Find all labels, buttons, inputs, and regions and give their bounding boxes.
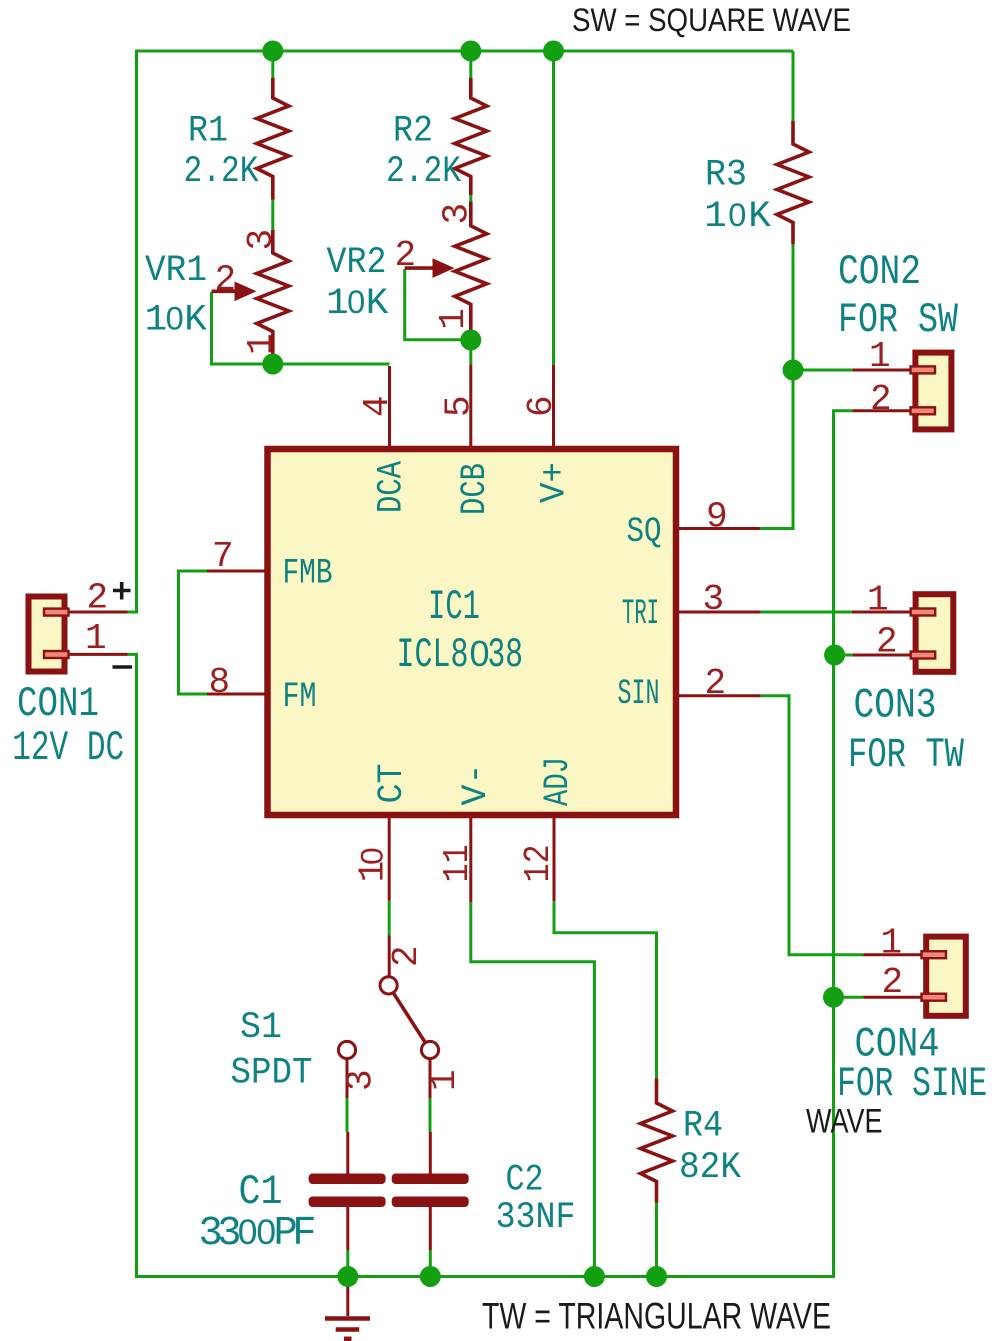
label CON4	[855, 1022, 940, 1069]
label IC1	[428, 584, 480, 631]
svg-text:0: 0	[728, 197, 746, 233]
capacitor C1	[309, 1132, 386, 1250]
wire CON2 pin 1	[793, 369, 852, 372]
pin name CT	[372, 764, 412, 804]
svg-text:3: 3	[341, 1069, 382, 1091]
svg-text:WAVE: WAVE	[806, 1103, 883, 1141]
svg-text:11: 11	[437, 844, 478, 882]
svg-text:8: 8	[209, 662, 231, 703]
pin 7 lead	[207, 570, 268, 573]
wire R3 top stub	[792, 51, 795, 121]
pin number 2 SIN	[705, 663, 727, 704]
CON1 pin number 1	[85, 618, 107, 659]
svg-text:33NF: 33NF	[496, 1197, 576, 1239]
svg-text:SW = SQUARE WAVE: SW = SQUARE WAVE	[572, 2, 851, 38]
svg-text:2: 2	[876, 622, 898, 663]
pin 6 lead	[552, 365, 555, 449]
potentiometer VR2	[405, 202, 487, 341]
svg-text:VR2: VR2	[327, 242, 387, 284]
wire FMB FM loop	[179, 571, 208, 694]
svg-text:2.2K: 2.2K	[386, 151, 461, 193]
svg-text:12: 12	[518, 844, 559, 882]
svg-text:DCB: DCB	[455, 463, 495, 515]
svg-text:1: 1	[869, 336, 891, 377]
node top V+	[543, 41, 564, 62]
label VR2	[327, 242, 387, 284]
label VR2 value	[326, 283, 389, 325]
svg-text:FOR SW: FOR SW	[838, 297, 958, 344]
svg-text:2: 2	[705, 663, 727, 704]
wire CON4 pin 2 stub	[834, 996, 864, 999]
svg-text:3: 3	[241, 229, 282, 251]
label R4	[683, 1106, 723, 1148]
pin number 3 TRI	[703, 579, 725, 620]
pin name V+	[535, 462, 575, 503]
pin name TRI	[622, 594, 659, 634]
wire top and left supply rail	[128, 51, 794, 612]
resistor R1	[257, 78, 289, 200]
label R3	[705, 154, 747, 196]
svg-text:7: 7	[212, 536, 234, 577]
pin number 4	[357, 395, 398, 417]
svg-text:SIN: SIN	[618, 674, 660, 714]
pin name V-	[456, 764, 496, 806]
svg-text:R2: R2	[393, 111, 433, 153]
label CON3 use	[848, 732, 964, 779]
wire VR2 wiper loop	[405, 269, 471, 340]
wire S1 pin1 to C2	[429, 1098, 432, 1132]
svg-text:K: K	[366, 283, 389, 325]
S1 pin number 1	[424, 1069, 465, 1091]
pin name FM	[283, 677, 317, 717]
CON4 pin number 2	[882, 962, 904, 1003]
label CON1	[17, 681, 99, 728]
svg-text:SQ: SQ	[627, 512, 662, 552]
node VR2 pin1	[460, 330, 481, 351]
node CON4 pin2	[823, 987, 844, 1008]
svg-text:1: 1	[241, 333, 282, 355]
wire CT pin 10 to switch	[388, 901, 391, 936]
svg-text:0: 0	[354, 847, 390, 865]
label R1	[188, 111, 228, 153]
svg-text:K: K	[748, 196, 771, 238]
pin number 7	[212, 536, 234, 577]
pin number 6	[521, 395, 562, 417]
CON1 pin number 2	[87, 578, 109, 619]
pin 12 lead	[553, 815, 556, 901]
label C1 value	[199, 1211, 317, 1257]
label CON4 use	[837, 1061, 987, 1108]
wire SIN to CON4 pin 1	[761, 696, 864, 955]
label ICL8038	[397, 632, 524, 679]
CON3 pin number 1	[867, 580, 889, 621]
IC U1 ICL8038 body	[268, 449, 677, 815]
svg-text:CT: CT	[372, 764, 412, 804]
pin 5 lead	[469, 364, 472, 449]
minus mark	[113, 665, 133, 669]
pin 11 lead	[469, 815, 472, 902]
svg-text:FOR SINE: FOR SINE	[837, 1061, 987, 1108]
node CON3 pin2	[824, 645, 845, 666]
svg-text:5: 5	[439, 395, 480, 417]
wire R1 top stub	[271, 51, 274, 78]
pin name ADJ	[538, 757, 578, 806]
label VR1	[145, 250, 207, 292]
svg-text:4: 4	[357, 395, 398, 417]
wire C1 bottom	[346, 1250, 349, 1277]
svg-text:2.2K: 2.2K	[184, 151, 259, 193]
label R2	[393, 111, 433, 153]
pin number 5	[439, 395, 480, 417]
wire C2 bottom	[429, 1250, 432, 1277]
node R4 ground	[646, 1266, 667, 1287]
pin 10 lead	[388, 815, 391, 901]
label CON3	[854, 682, 937, 729]
wire R1 to VR1	[271, 200, 274, 230]
svg-text:6: 6	[521, 395, 562, 417]
svg-text:2: 2	[395, 235, 417, 276]
svg-text:K: K	[184, 300, 207, 342]
svg-text:C1: C1	[239, 1169, 283, 1216]
svg-text:1: 1	[145, 300, 168, 342]
pin number 9	[706, 497, 728, 538]
label R2 value	[386, 151, 461, 193]
wire R3 bottom to SQ pin 9	[760, 244, 793, 528]
pin name DCB	[455, 463, 495, 515]
S1 pin number 3	[341, 1069, 382, 1091]
potentiometer VR1	[212, 230, 289, 364]
wire R4 bottom to ground	[655, 1203, 658, 1277]
svg-text:V+: V+	[535, 462, 575, 503]
wire V- pin 11 to ground	[471, 902, 595, 1276]
svg-text:R4: R4	[683, 1106, 723, 1148]
svg-text:2: 2	[87, 578, 109, 619]
VR2 pin number 1	[433, 308, 474, 330]
svg-text:FM: FM	[283, 677, 317, 717]
svg-text:1: 1	[881, 923, 903, 964]
svg-text:82K: 82K	[679, 1147, 741, 1189]
pin number 8	[209, 662, 231, 703]
pin 9 lead	[676, 527, 760, 530]
pin name DCA	[372, 461, 412, 513]
node CON2 pin1	[783, 360, 804, 381]
svg-text:CON1: CON1	[17, 681, 99, 728]
pin name SQ	[627, 512, 662, 552]
wire TRI to CON3 pin 1	[761, 611, 852, 614]
pin 3 lead	[676, 611, 761, 614]
VR2 pin number 2	[395, 235, 417, 276]
wire R2 top stub	[469, 51, 472, 78]
ground	[325, 1277, 370, 1339]
label C1	[239, 1169, 283, 1216]
resistor R4	[641, 1078, 673, 1202]
svg-text:DCA: DCA	[372, 461, 412, 513]
svg-text:38: 38	[488, 632, 524, 679]
svg-text:1: 1	[326, 283, 349, 325]
wire CON3 pin 2 stub	[835, 654, 853, 657]
VR1 pin number 2	[215, 260, 237, 301]
connector CON4	[863, 937, 966, 1016]
svg-text:R3: R3	[705, 154, 747, 196]
label CON2	[838, 249, 921, 296]
wire V+ line to pin 6	[552, 51, 555, 365]
pin 2 lead	[676, 694, 761, 697]
svg-text:IC1: IC1	[428, 584, 480, 631]
label VR1 value	[145, 300, 208, 342]
svg-text:0: 0	[238, 1212, 258, 1252]
svg-text:0: 0	[166, 301, 184, 337]
svg-text:1: 1	[85, 618, 107, 659]
connector CON1	[29, 597, 128, 672]
svg-text:1: 1	[704, 196, 727, 238]
CON3 pin number 2	[876, 622, 898, 663]
svg-text:2: 2	[386, 945, 427, 967]
pin number 12	[518, 844, 559, 882]
svg-text:CON3: CON3	[854, 682, 937, 729]
connector CON3	[852, 594, 954, 672]
svg-text:VR1: VR1	[145, 250, 207, 292]
pin 4 lead	[388, 366, 391, 449]
wire R2 to VR2	[469, 195, 472, 202]
pin number 10	[353, 847, 394, 882]
svg-text:0: 0	[347, 284, 365, 320]
VR2 pin number 3	[437, 203, 478, 225]
svg-text:SPDT: SPDT	[231, 1053, 313, 1095]
node C2 ground	[420, 1266, 441, 1287]
CON2 pin number 2	[870, 379, 892, 420]
svg-text:F: F	[292, 1211, 316, 1257]
node VR1 pin1	[262, 354, 283, 375]
pin name SIN	[618, 674, 660, 714]
pin 8 lead	[207, 693, 268, 696]
svg-text:ICL8: ICL8	[397, 632, 469, 679]
svg-text:1: 1	[867, 580, 889, 621]
svg-text:1: 1	[433, 308, 474, 330]
svg-text:FOR TW: FOR TW	[848, 732, 964, 779]
svg-text:FMB: FMB	[283, 554, 333, 594]
label S1 type	[231, 1053, 313, 1095]
svg-text:CON2: CON2	[838, 249, 921, 296]
switch S1 SPDT	[338, 936, 438, 1099]
label S1	[240, 1007, 282, 1049]
svg-text:2: 2	[215, 260, 237, 301]
wire VR1 wiper to node DCA	[212, 292, 390, 364]
svg-text:R1: R1	[188, 111, 228, 153]
capacitor C2	[392, 1132, 469, 1250]
node top R1	[262, 41, 283, 62]
label C2	[506, 1160, 544, 1202]
CON4 pin number 1	[881, 923, 903, 964]
svg-text:2: 2	[870, 379, 892, 420]
pin name FMB	[283, 554, 333, 594]
label SW = SQUARE WAVE	[572, 2, 851, 38]
svg-text:3: 3	[437, 203, 478, 225]
svg-text:TW = TRIANGULAR WAVE: TW = TRIANGULAR WAVE	[482, 1296, 831, 1337]
svg-text:12V DC: 12V DC	[12, 725, 124, 772]
resistor R3	[777, 121, 809, 244]
wire ground rail: CON1 pin1 down, bottom, up to CON2 pin2	[128, 411, 853, 1277]
svg-text:9: 9	[706, 497, 728, 538]
wire S1 pin3 to C1	[346, 1098, 349, 1132]
wire ADJ pin 12 to R4	[554, 901, 657, 1078]
svg-text:V-: V-	[456, 764, 496, 806]
node V- ground	[584, 1266, 605, 1287]
pin number 11	[437, 844, 478, 882]
connector CON2	[852, 353, 951, 430]
svg-text:2: 2	[882, 962, 904, 1003]
label TW = TRIANGULAR WAVE	[482, 1296, 831, 1337]
plus mark	[113, 582, 131, 600]
node top R2	[460, 41, 481, 62]
svg-text:TRI: TRI	[622, 594, 659, 634]
label C2 value	[496, 1197, 576, 1239]
node C1 ground	[337, 1266, 358, 1287]
VR1 pin number 1	[241, 333, 282, 355]
svg-text:1: 1	[424, 1069, 465, 1091]
label CON2 use	[838, 297, 958, 344]
svg-text:C2: C2	[506, 1160, 544, 1202]
svg-text:3: 3	[703, 579, 725, 620]
CON2 pin number 1	[869, 336, 891, 377]
wire VR2 pin1 to pin 5	[469, 340, 472, 364]
resistor R2	[455, 78, 487, 195]
label CON1 value	[12, 725, 124, 772]
label R3 value	[704, 196, 771, 238]
label R4 value	[679, 1147, 741, 1189]
S1 pin number 2	[386, 945, 427, 967]
label WAVE (sine)	[806, 1103, 883, 1141]
label R1 value	[184, 151, 259, 193]
svg-text:ADJ: ADJ	[538, 757, 578, 806]
svg-text:S1: S1	[240, 1007, 282, 1049]
VR1 pin number 3	[241, 229, 282, 251]
